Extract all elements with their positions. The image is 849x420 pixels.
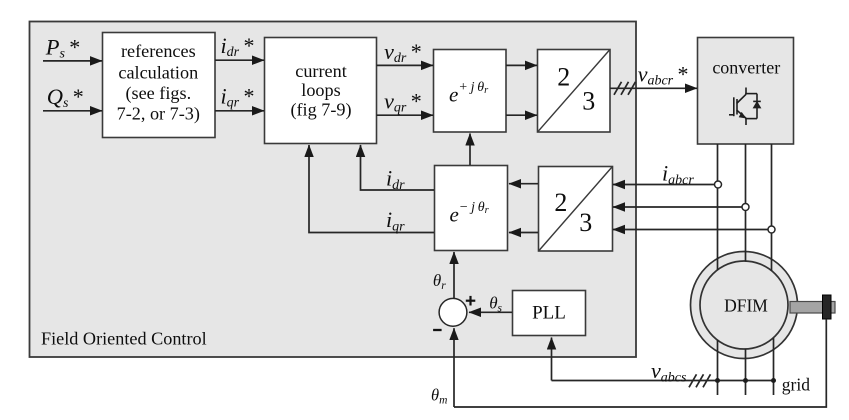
label idr* — [221, 33, 255, 60]
encoder — [823, 295, 832, 319]
svg-text:iabcr: iabcr — [662, 161, 694, 189]
block 2/3 transform bottom — [539, 167, 613, 252]
wire stator phase b — [745, 349, 747, 395]
machine DFIM stator circle — [691, 252, 798, 359]
svg-text:Field Oriented Control: Field Oriented Control — [41, 328, 207, 348]
label iqr* — [221, 83, 255, 110]
svg-text:3: 3 — [579, 208, 592, 237]
wire rotor phase c — [771, 144, 773, 271]
wire iqr* reference — [215, 110, 264, 112]
svg-text:(fig 7-9): (fig 7-9) — [290, 100, 351, 121]
wire Ps* input — [43, 60, 102, 62]
wire theta_m up into summing — [453, 328, 455, 407]
svg-text:loops: loops — [301, 80, 340, 100]
shaft — [790, 302, 835, 314]
block converter — [698, 38, 794, 145]
label theta_s — [489, 294, 502, 315]
svg-text:2: 2 — [557, 63, 570, 92]
block e+jtheta_r rotation — [434, 50, 507, 133]
label minus — [433, 329, 442, 331]
summing junction — [439, 298, 467, 326]
label vabcr* — [638, 61, 689, 88]
label vdr* — [384, 39, 422, 66]
wire current sensor c to 2/3 — [613, 229, 768, 231]
current sensor b — [742, 204, 749, 211]
label grid — [782, 375, 810, 395]
wire vabcs into PLL — [551, 338, 553, 381]
wire PLL to summing — [469, 311, 512, 313]
svg-text:references: references — [121, 41, 196, 61]
wire 2/3 to e- bottom — [509, 232, 538, 234]
wire stator phase a — [717, 340, 719, 395]
FOC outer box — [30, 22, 637, 358]
node stator b junction — [743, 378, 748, 383]
wire iqr feedback — [309, 145, 434, 233]
label iqr — [386, 207, 405, 235]
wire current sensor a to 2/3 — [613, 184, 714, 186]
wire e+ to 2/3 bottom row — [506, 114, 537, 116]
wire vabcr* to converter with 3-phase slashes — [610, 82, 697, 95]
label Qs* — [47, 84, 84, 111]
wire Qs* input — [43, 110, 102, 112]
svg-text:DFIM: DFIM — [724, 296, 768, 316]
svg-text:PLL: PLL — [532, 302, 566, 323]
svg-text:2: 2 — [554, 188, 567, 217]
node stator c junction — [771, 378, 776, 383]
label Field Oriented Control — [41, 328, 207, 348]
wire stator phase c — [773, 338, 775, 395]
svg-text:current: current — [295, 61, 347, 81]
svg-text:3: 3 — [582, 87, 595, 116]
wire theta_r from e- to e+ — [469, 134, 471, 166]
wire vdr* — [377, 64, 434, 66]
wire theta_m from encoder — [454, 319, 826, 407]
label vqr* — [384, 89, 422, 116]
block references calculation — [103, 33, 216, 138]
label Ps* — [45, 35, 81, 62]
wire e+ to 2/3 top row — [506, 64, 537, 66]
wire theta_r from summing to e- — [453, 252, 455, 299]
svg-text:vabcs: vabcs — [651, 358, 687, 386]
block e-jtheta_r rotation — [435, 166, 508, 251]
label theta_m — [431, 386, 447, 407]
icon IGBT with diode inside converter — [729, 88, 761, 126]
current sensor c — [768, 226, 775, 233]
wire 2/3 to e- top — [509, 183, 538, 185]
svg-text:grid: grid — [782, 375, 810, 395]
wire current sensor b to 2/3 — [613, 206, 742, 208]
wire rotor phase a — [717, 144, 719, 270]
current sensor a — [715, 181, 722, 188]
label theta_r — [433, 271, 446, 292]
wire idr feedback — [361, 145, 435, 190]
svg-text:vabcr *: vabcr * — [638, 61, 689, 88]
svg-text:(see figs.: (see figs. — [125, 83, 191, 104]
svg-text:calculation: calculation — [118, 62, 198, 82]
svg-text:7-2, or 7-3): 7-2, or 7-3) — [117, 104, 200, 125]
block PLL — [513, 291, 586, 336]
svg-text:θm: θm — [431, 386, 447, 407]
wire idr* reference — [215, 59, 264, 61]
wire vqr* — [377, 114, 434, 116]
label vabcs — [651, 358, 687, 386]
label iabcr — [662, 161, 694, 189]
wire rotor phase b — [745, 144, 747, 262]
machine DFIM rotor circle — [700, 261, 788, 349]
wire vabcs bus with 3-phase slashes — [552, 374, 774, 387]
block current loops — [265, 38, 377, 144]
svg-text:converter: converter — [712, 57, 780, 77]
label plus — [466, 296, 476, 306]
label idr — [386, 165, 405, 193]
block 2/3 transform top — [538, 50, 611, 133]
node stator a junction — [715, 378, 720, 383]
